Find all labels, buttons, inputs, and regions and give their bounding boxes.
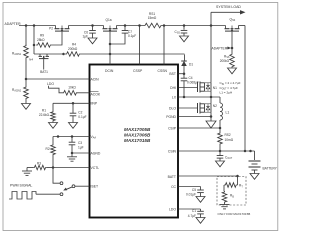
wire VAA xyxy=(53,136,90,138)
option note xyxy=(218,212,251,216)
switch pole xyxy=(72,185,75,188)
capacitor C1 label xyxy=(188,209,196,218)
node CSSN xyxy=(163,24,166,27)
pin AGND xyxy=(91,151,101,155)
svg-text:15mΩ: 15mΩ xyxy=(148,16,157,20)
resistor RSS label xyxy=(220,54,230,63)
wire N1 source xyxy=(210,91,212,97)
svg-text:Q1a: Q1a xyxy=(106,18,112,22)
pin ACOK xyxy=(91,91,101,96)
svg-text:1µF: 1µF xyxy=(78,145,84,149)
svg-text:ADAPTER: ADAPTER xyxy=(212,47,228,51)
wire R4 to DCIN node xyxy=(81,53,110,55)
svg-text:C2: C2 xyxy=(78,110,82,114)
pin CSIP xyxy=(168,126,177,130)
svg-text:PGND: PGND xyxy=(166,115,176,119)
svg-text:ISET: ISET xyxy=(91,184,99,188)
ADAPTER input label xyxy=(5,22,22,26)
capacitor C6 label xyxy=(82,30,88,38)
svg-text:ACOK: ACOK xyxy=(91,92,101,96)
wire VCTL node to switch xyxy=(53,168,60,184)
wire adapter rail left xyxy=(19,25,56,27)
svg-text:R4: R4 xyxy=(72,43,76,47)
node battery line rail xyxy=(244,150,247,153)
node VCTL xyxy=(52,166,55,169)
svg-text:CSSN: CSSN xyxy=(158,69,168,73)
svg-text:IINP: IINP xyxy=(91,102,98,106)
node BATT RT xyxy=(236,175,239,178)
SYSTEM LOAD label xyxy=(216,5,241,9)
wire rail Q1a to RS1 xyxy=(117,25,144,27)
wire CSIP xyxy=(179,127,221,129)
transistor N4 label xyxy=(29,57,33,61)
svg-text:0.01µF: 0.01µF xyxy=(186,192,196,196)
wire rail Qss to right corner xyxy=(239,25,246,27)
resistor RS2 xyxy=(218,128,223,151)
pin CC xyxy=(171,185,176,189)
node VAA C3 xyxy=(57,135,74,138)
node R4 left xyxy=(62,53,65,56)
capacitor C6 xyxy=(89,26,96,39)
U1 part numbers xyxy=(124,127,151,143)
transistor N2 xyxy=(198,103,212,114)
svg-text:1µF: 1µF xyxy=(82,35,88,39)
capacitor C5 xyxy=(197,187,204,197)
pin LDO xyxy=(169,207,176,211)
wire divider mid xyxy=(25,59,27,86)
wire LX xyxy=(179,96,221,98)
ground N2 PGND xyxy=(206,121,216,128)
node adapter-divider xyxy=(25,24,28,27)
capacitor C2 xyxy=(70,103,77,122)
svg-text:LX: LX xyxy=(172,95,177,99)
svg-text:CSIP: CSIP xyxy=(168,126,177,130)
pin VCTL xyxy=(91,166,100,170)
svg-text:PWM SIGNAL: PWM SIGNAL xyxy=(10,184,32,188)
ground C3 AGND xyxy=(67,153,77,161)
node CSIP xyxy=(219,127,222,130)
ADAPTER sense label and arrow xyxy=(212,47,232,51)
svg-text:0.1µF: 0.1µF xyxy=(128,34,136,38)
wire N4 top link xyxy=(34,53,64,55)
switch lower throw xyxy=(60,193,63,196)
inductor L1 xyxy=(220,97,223,128)
capacitor C2 label xyxy=(78,110,86,119)
transistor N2 label xyxy=(213,104,217,108)
pin IINP xyxy=(91,102,98,106)
wire AGND xyxy=(71,152,90,155)
node D1 rail xyxy=(183,24,186,27)
node R9 left xyxy=(33,44,36,47)
capacitor CSS xyxy=(181,26,188,37)
wire PGND xyxy=(179,115,213,118)
pin CSSN xyxy=(158,26,168,74)
svg-text:CSSP: CSSP xyxy=(133,69,143,73)
switch arm xyxy=(63,187,72,191)
svg-text:VCTL: VCTL xyxy=(91,166,100,170)
capacitor CSS label xyxy=(175,30,181,35)
node BAT1 stub label xyxy=(40,70,48,74)
svg-text:4.7µF: 4.7µF xyxy=(188,214,196,218)
resistor RS1 label xyxy=(148,12,157,20)
svg-text:22.6kΩ: 22.6kΩ xyxy=(39,113,50,117)
ground RSS xyxy=(228,68,237,74)
svg-text:DLO: DLO xyxy=(169,106,176,110)
resistor R1 label xyxy=(39,109,50,117)
transistor P2 xyxy=(55,26,70,32)
wire N2 source xyxy=(210,112,212,121)
svg-text:C5: C5 xyxy=(192,188,196,192)
svg-text:10kΩ: 10kΩ xyxy=(68,86,76,90)
resistor RACIN2 label xyxy=(12,88,22,93)
pin DHI xyxy=(170,86,176,90)
PWM SIGNAL label xyxy=(10,184,32,188)
ground CSS xyxy=(180,36,189,42)
svg-text:L1 = 2µH: L1 = 2µH xyxy=(220,90,233,94)
svg-text:AGND: AGND xyxy=(91,151,101,155)
svg-text:L1: L1 xyxy=(226,111,230,115)
resistor R9 xyxy=(36,43,52,48)
wire ISET xyxy=(75,185,90,187)
svg-text:10mΩ: 10mΩ xyxy=(225,138,234,142)
node Q1a gate / C7 xyxy=(109,43,112,46)
dashed option box xyxy=(217,177,246,206)
inductor L1 label xyxy=(226,111,230,115)
transistor P2 label xyxy=(49,27,53,31)
svg-text:DCIN: DCIN xyxy=(105,69,114,73)
transistor N1 label xyxy=(213,86,217,90)
resistor R5 10k xyxy=(62,91,78,96)
wire right rail down to battery line xyxy=(244,26,246,152)
wire CC xyxy=(179,186,201,188)
svg-text:N1: N1 xyxy=(213,86,217,90)
resistor RB label xyxy=(230,194,234,199)
wire ACIN xyxy=(26,78,90,80)
node DCIN xyxy=(109,53,112,56)
svg-text:BATTERY: BATTERY xyxy=(263,166,278,170)
diode D1 label xyxy=(189,63,193,67)
wire Q1a gate to DCIN node xyxy=(109,31,111,54)
svg-text:D1: D1 xyxy=(189,63,193,67)
wire IINP xyxy=(53,102,90,104)
resistor RSS xyxy=(230,53,235,68)
pin CSSP xyxy=(133,26,143,74)
svg-text:DHI: DHI xyxy=(170,86,176,90)
pin BATT xyxy=(168,175,176,179)
svg-text:28kΩ: 28kΩ xyxy=(37,38,45,42)
pin CSIN xyxy=(168,149,177,153)
svg-text:ADAPTER: ADAPTER xyxy=(5,22,22,26)
wire N2 drain xyxy=(210,97,212,104)
resistor R3 label xyxy=(37,161,41,165)
ground RACIN divider xyxy=(22,104,31,110)
svg-text:C7: C7 xyxy=(128,30,132,34)
resistor RS1 xyxy=(143,23,163,28)
capacitor COUT xyxy=(217,151,224,161)
PWM square wave xyxy=(9,192,36,200)
pin PGND xyxy=(166,115,176,119)
svg-text:SYSTEM LOAD: SYSTEM LOAD xyxy=(216,5,241,9)
ground R3 xyxy=(22,171,32,175)
ground C6 xyxy=(88,38,97,44)
svg-text:MAX17006B: MAX17006B xyxy=(124,133,151,138)
svg-text:CSIN: CSIN xyxy=(168,149,177,153)
capacitor C3 xyxy=(69,137,76,154)
node CSSP xyxy=(138,24,141,27)
ground C1 xyxy=(196,218,205,224)
wire BATT xyxy=(179,175,238,177)
resistor RACIN2 xyxy=(24,86,29,100)
wire LDO stub xyxy=(49,86,63,93)
svg-text:LDO: LDO xyxy=(47,82,54,86)
battery label xyxy=(263,166,278,170)
wire PWM to switch xyxy=(36,193,60,195)
ground C5 xyxy=(196,197,205,203)
resistor R1 xyxy=(51,103,56,122)
svg-text:N2: N2 xyxy=(213,104,217,108)
node LX FETs xyxy=(210,96,213,99)
pin ISET xyxy=(91,184,99,188)
wire D1 riser xyxy=(184,55,186,62)
resistor RS2 label xyxy=(225,133,234,142)
transistor QSS label xyxy=(230,18,236,23)
resistor RACIN1 label xyxy=(12,52,22,57)
svg-text:200kΩ: 200kΩ xyxy=(220,59,230,63)
capacitor C3 label xyxy=(78,141,84,150)
svg-text:C1: C1 xyxy=(192,209,196,213)
resistor R9 label xyxy=(37,33,45,42)
op-amp U1 MAX17005B IC body xyxy=(90,65,179,218)
wire R3 to ground xyxy=(27,168,33,172)
pin BST xyxy=(169,72,176,76)
wire system load riser xyxy=(210,12,212,25)
svg-text:200kΩ: 200kΩ xyxy=(68,47,78,51)
svg-text:N4: N4 xyxy=(29,57,33,61)
wire DHI xyxy=(179,87,198,89)
wire divider bottom xyxy=(25,100,27,104)
svg-text:R9: R9 xyxy=(40,33,44,37)
node C6 xyxy=(91,24,94,27)
node adapter sense xyxy=(231,47,234,50)
transistor QSS xyxy=(225,26,240,32)
capacitor C5 label xyxy=(186,188,196,197)
ground R1 xyxy=(49,123,58,129)
node battery line corner xyxy=(249,150,252,153)
transistor Q1a label xyxy=(106,18,112,22)
wire R9 to P2 gate xyxy=(52,31,62,45)
node IINP C2 xyxy=(72,102,75,105)
system load arrow xyxy=(211,10,246,14)
node LDO stub label xyxy=(47,82,54,86)
resistor R5 label xyxy=(68,86,76,90)
svg-text:RS2: RS2 xyxy=(225,133,231,137)
wire LDO xyxy=(179,208,201,210)
ground RB xyxy=(220,205,230,209)
transistor Q1a xyxy=(103,26,118,32)
svg-text:LDO: LDO xyxy=(169,207,176,211)
pin DLO xyxy=(169,106,176,110)
resistor R2 xyxy=(51,137,56,168)
switch upper throw xyxy=(60,182,63,185)
transistor N4 xyxy=(39,54,50,70)
svg-text:MAX17015B: MAX17015B xyxy=(124,138,151,143)
wire R5 to ACOK xyxy=(78,92,90,94)
note component values xyxy=(220,81,241,94)
resistor R2 label xyxy=(46,147,50,151)
wire N1 drain xyxy=(210,26,212,83)
svg-text:QSS: QSS xyxy=(230,18,236,23)
pin VAA xyxy=(91,135,97,140)
svg-text:CC: CC xyxy=(171,185,176,189)
node CSIN RS2 xyxy=(219,150,222,153)
resistor R3 xyxy=(33,165,53,170)
svg-text:BAT1: BAT1 xyxy=(40,70,48,74)
wire divider column top xyxy=(25,26,27,46)
resistor RT label xyxy=(239,184,243,189)
capacitor C4 label xyxy=(187,76,199,85)
svg-text:R2: R2 xyxy=(46,147,50,151)
resistor RB xyxy=(222,191,227,205)
capacitor COUT label xyxy=(225,156,233,161)
resistor RACIN1 xyxy=(24,45,29,60)
node adapter-R9 xyxy=(33,24,36,27)
svg-text:BATT: BATT xyxy=(168,175,176,179)
wire BST xyxy=(179,73,185,75)
wire CSIN battery line xyxy=(179,150,255,152)
battery BATTERY xyxy=(249,151,261,179)
resistor R4 label xyxy=(68,43,78,52)
wire rail RS1 to Qss xyxy=(163,25,226,27)
svg-text:MAX17005B: MAX17005B xyxy=(124,127,151,132)
wire DCIN line to D1 riser xyxy=(110,53,185,55)
node ACIN xyxy=(25,78,28,81)
wire QSS gate xyxy=(231,31,233,53)
node C7 xyxy=(124,24,127,27)
svg-text:P2: P2 xyxy=(49,27,53,31)
transistor N1 xyxy=(198,82,212,93)
resistor R4 xyxy=(65,52,81,57)
svg-text:BST: BST xyxy=(169,72,176,76)
diode D1 xyxy=(181,61,187,74)
ground COUT xyxy=(216,161,225,167)
node BST xyxy=(183,72,186,75)
capacitor C7 xyxy=(110,26,128,45)
node LX C4 xyxy=(183,96,186,99)
capacitor C1 xyxy=(197,209,204,218)
wire R9 column xyxy=(33,26,35,55)
svg-text:0.1µF: 0.1µF xyxy=(78,115,86,119)
pin DCIN xyxy=(105,54,114,73)
pin LX xyxy=(172,95,177,99)
svg-text:ONLY FOR MAX17015B: ONLY FOR MAX17015B xyxy=(218,212,251,216)
wire VCTL xyxy=(53,167,90,169)
wire DLO xyxy=(179,107,198,109)
capacitor C4 xyxy=(181,74,188,97)
ground C2 xyxy=(69,123,78,129)
wire rail P2 to Q1a xyxy=(69,25,104,27)
svg-text:C3: C3 xyxy=(78,141,82,145)
svg-text:ACIN: ACIN xyxy=(91,77,100,81)
resistor RT xyxy=(224,176,238,191)
capacitor C7 label xyxy=(128,30,136,38)
svg-text:C4: C4 xyxy=(189,76,193,80)
pin ACIN xyxy=(91,77,100,81)
node N1 drain rail xyxy=(210,24,213,27)
